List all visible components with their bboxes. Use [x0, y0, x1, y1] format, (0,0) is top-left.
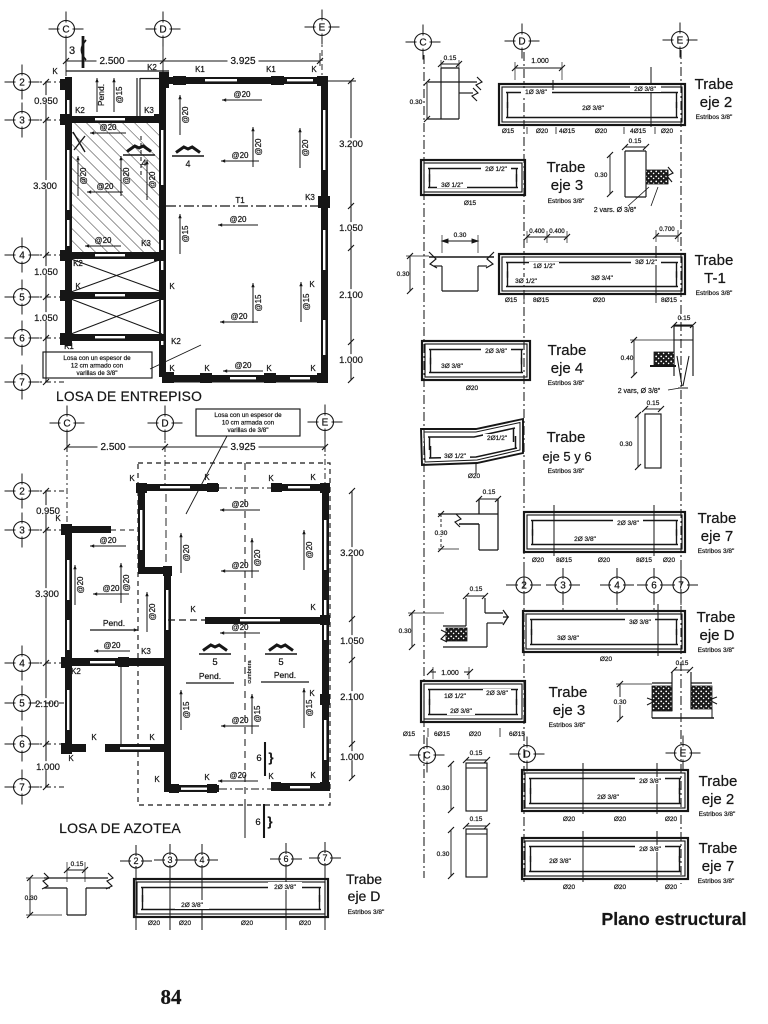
- section L eje 7: [478, 499, 480, 514]
- svg-text:T1: T1: [235, 196, 245, 205]
- svg-text:D: D: [159, 25, 166, 36]
- svg-text:eje 5 y 6: eje 5 y 6: [542, 449, 591, 464]
- svg-text:5: 5: [19, 699, 25, 710]
- bar label 2-1/2 eje 3: [481, 165, 511, 172]
- dim 0.700 above T-1: [656, 235, 678, 237]
- svg-text:0.30: 0.30: [437, 851, 450, 858]
- svg-text:Ø20: Ø20: [148, 920, 161, 927]
- column K3 row3 D axis: [154, 114, 166, 125]
- svg-text:K3: K3: [305, 193, 315, 202]
- dim 0.15 section eje 5y6: [645, 408, 661, 410]
- svg-text:E: E: [680, 749, 687, 760]
- note box losa 12 cm: [43, 352, 152, 378]
- row bubble 4 azotea: [5, 646, 40, 681]
- svg-text:3: 3: [167, 855, 172, 865]
- beam Trabe eje D right: [523, 611, 685, 652]
- svg-text:@20: @20: [94, 236, 112, 245]
- svg-text:@20: @20: [305, 541, 314, 559]
- wall row 3 entrepiso: [65, 116, 166, 123]
- svg-text:2 vars. Ø 3/8": 2 vars. Ø 3/8": [594, 207, 637, 214]
- speckled slab eje 3 section: [646, 170, 668, 184]
- svg-text:@20: @20: [231, 623, 249, 632]
- row bubble 2 entrepiso: [5, 65, 40, 100]
- beam Trabe eje 3 second: [421, 681, 525, 722]
- svg-text:Ø20: Ø20: [593, 297, 606, 304]
- column K top-left wing azotea: [61, 524, 72, 535]
- ridge line cumbrera dashed: [244, 463, 246, 805]
- row bubble 5 entrepiso: [5, 280, 40, 315]
- svg-text:@20: @20: [231, 500, 249, 509]
- svg-text:3.200: 3.200: [339, 139, 363, 150]
- detail bubble 6: [270, 843, 302, 875]
- dim 1.000 above eje 3 second: [430, 671, 470, 673]
- svg-text:T-1: T-1: [704, 270, 726, 287]
- svg-text:3: 3: [19, 526, 25, 537]
- grid bubble E top of entrepiso plan: [305, 10, 340, 45]
- svg-text:Ø20: Ø20: [241, 920, 254, 927]
- svg-text:}: }: [267, 814, 272, 829]
- svg-text:C: C: [62, 25, 69, 36]
- svg-text:K: K: [268, 474, 274, 483]
- wall row 4 azotea: [65, 658, 171, 666]
- top wall big part azotea west segment: [138, 484, 219, 491]
- svg-text:2Ø 3/8": 2Ø 3/8": [450, 708, 473, 715]
- dim 0.15 section eje 2: [441, 63, 459, 65]
- svg-text:2Ø 3/8": 2Ø 3/8": [181, 902, 204, 909]
- section column eje 5y6: [645, 414, 661, 468]
- svg-text:K1: K1: [64, 342, 74, 351]
- svg-text:Estribos 3/8": Estribos 3/8": [548, 468, 585, 475]
- bar label 3-1/2 eje 3: [437, 181, 467, 188]
- dim 1.000 above eje 2 beam: [515, 67, 562, 69]
- stirrup change lines eje 2 bottom: [582, 763, 584, 814]
- svg-text:6: 6: [255, 817, 260, 828]
- X brace room rows 4-5: [71, 259, 162, 292]
- svg-text:@15: @15: [305, 699, 314, 717]
- svg-text:3Ø 3/8": 3Ø 3/8": [441, 363, 464, 370]
- svg-text:3Ø 1/2": 3Ø 1/2": [441, 182, 464, 189]
- svg-text:6: 6: [19, 334, 25, 345]
- svg-text:@20: @20: [181, 106, 190, 124]
- column K top wall azotea c: [271, 483, 282, 492]
- section mark 3 below C axis: [82, 36, 85, 68]
- bar label 2-1/2 eje 5y6: [483, 434, 511, 441]
- svg-text:eje 2: eje 2: [702, 791, 735, 808]
- svg-text:5: 5: [19, 293, 25, 304]
- svg-text:Ø20: Ø20: [665, 816, 678, 823]
- dim 0.15 eje 2 bottom section: [466, 759, 487, 761]
- svg-text:K: K: [268, 772, 274, 781]
- svg-text:E: E: [322, 418, 329, 429]
- right wall entrepiso: [321, 77, 328, 382]
- svg-text:7: 7: [19, 783, 25, 794]
- svg-text:Ø20: Ø20: [598, 557, 611, 564]
- detail bubble 2: [120, 845, 152, 877]
- svg-text:0.400: 0.400: [529, 228, 545, 235]
- section slab edge eje 4: [673, 326, 675, 376]
- svg-text:C: C: [419, 38, 426, 49]
- dim 0.30 eje 3 second section: [619, 684, 621, 719]
- svg-text:3: 3: [19, 116, 25, 127]
- svg-text:0.30: 0.30: [25, 895, 38, 902]
- bar label 2-3/8 eje 7 top: [613, 519, 643, 526]
- svg-text:K: K: [55, 514, 61, 523]
- svg-text:3Ø 3/4": 3Ø 3/4": [591, 275, 614, 282]
- interior wall D axis entrepiso: [159, 77, 166, 377]
- column K bottom wall azotea b: [207, 784, 217, 793]
- svg-text:1Ø 1/2": 1Ø 1/2": [533, 263, 556, 270]
- dim 0.30 above T section: [442, 240, 478, 242]
- detail bubble 4: [186, 844, 218, 876]
- dim 0.30 eje 7 bottom section: [450, 830, 452, 876]
- svg-text:eje 4: eje 4: [551, 360, 584, 377]
- svg-text:6: 6: [19, 740, 25, 751]
- stirrup change line T-1: [655, 246, 657, 296]
- svg-text:0.40: 0.40: [621, 355, 634, 362]
- svg-text:Estribos 3/8": Estribos 3/8": [696, 114, 733, 121]
- svg-text:Ø20: Ø20: [600, 656, 613, 663]
- dim 0.15 section eje 4: [674, 324, 693, 326]
- svg-text:@20: @20: [301, 139, 310, 157]
- svg-text:0.30: 0.30: [437, 785, 450, 792]
- svg-text:4: 4: [19, 659, 25, 670]
- speckled slab eje D section: [446, 628, 467, 641]
- row bubble 3 azotea: [5, 513, 40, 548]
- right dim chain azotea: [351, 491, 353, 778]
- svg-text:0.30: 0.30: [454, 232, 467, 239]
- svg-text:3.925: 3.925: [230, 442, 255, 453]
- row bubble 3 entrepiso: [5, 103, 40, 138]
- column K right wall azotea: [320, 694, 330, 705]
- column K bottom right corner: [317, 373, 328, 383]
- svg-text:84: 84: [161, 985, 183, 1009]
- column K top-left corner: [60, 79, 71, 90]
- grid bubble C right top: [406, 25, 441, 60]
- svg-text:7: 7: [678, 581, 684, 592]
- svg-text:8Ø15: 8Ø15: [556, 557, 572, 564]
- svg-text:0.15: 0.15: [676, 660, 689, 667]
- svg-text:}: }: [268, 750, 273, 765]
- section L corner eje 2: [440, 68, 442, 119]
- svg-text:2.500: 2.500: [100, 442, 125, 453]
- svg-text:LOSA DE AZOTEA: LOSA DE AZOTEA: [59, 820, 181, 836]
- svg-text:2: 2: [521, 581, 527, 592]
- svg-text:C: C: [63, 419, 70, 430]
- svg-text:@20: @20: [122, 167, 131, 185]
- grid bubble D right bottom: [510, 737, 545, 772]
- svg-text:@20: @20: [148, 603, 157, 621]
- svg-text:eje 7: eje 7: [702, 858, 735, 875]
- svg-text:@20: @20: [234, 361, 252, 370]
- svg-text:K3: K3: [141, 239, 151, 248]
- axis lines through detail beam: [135, 868, 137, 930]
- svg-text:0.30: 0.30: [614, 699, 627, 706]
- bottom-right wall azotea: [273, 783, 330, 791]
- wall top of left wing azotea: [65, 526, 111, 533]
- svg-text:3: 3: [560, 581, 566, 592]
- bar label 2-3/8 top right detail: [268, 882, 302, 890]
- interior axis dash D azotea room: [165, 494, 167, 574]
- beam T1 centerline: [166, 205, 321, 207]
- svg-text:5: 5: [212, 657, 217, 668]
- svg-text:K: K: [309, 689, 315, 698]
- svg-text:K: K: [68, 754, 74, 763]
- svg-text:Estribos 3/8": Estribos 3/8": [548, 380, 585, 387]
- svg-text:4: 4: [199, 855, 204, 865]
- axis stubs into beam eje D: [523, 594, 525, 611]
- svg-text:3Ø 3/8": 3Ø 3/8": [557, 635, 580, 642]
- detail bubble 7: [309, 842, 341, 874]
- svg-text:K: K: [310, 603, 316, 612]
- svg-text:Losa con un espesor de: Losa con un espesor de: [63, 355, 131, 362]
- bar label 2-3/8 eje 2 top right: [630, 85, 661, 92]
- svg-text:K: K: [190, 605, 196, 614]
- wall top of big room entrepiso: [163, 77, 328, 84]
- svg-text:@20: @20: [79, 167, 88, 185]
- dim 0.30 bottom-left sketch: [29, 878, 31, 915]
- svg-text:0.15: 0.15: [647, 400, 660, 407]
- leader from note box azotea: [186, 436, 227, 514]
- column K bottom wall azotea c: [271, 782, 281, 791]
- svg-text:K2: K2: [71, 667, 81, 676]
- column K bottom wall: [200, 373, 212, 383]
- svg-text:Pend.: Pend.: [199, 671, 221, 681]
- svg-text:Pend.: Pend.: [103, 618, 125, 628]
- section column eje 7 bottom: [466, 829, 487, 877]
- svg-text:K: K: [169, 364, 175, 373]
- column K1 row6: [60, 333, 72, 345]
- dimension 2.500 top entrepiso: [66, 60, 163, 62]
- svg-text:Ø20: Ø20: [614, 816, 627, 823]
- svg-text:@20: @20: [76, 576, 85, 594]
- svg-text:@20: @20: [96, 182, 114, 191]
- grid bubble C top of entrepiso plan: [49, 12, 84, 47]
- svg-text:2.100: 2.100: [340, 692, 364, 703]
- bar label 2-3/8 eje 3 second bottom: [447, 707, 475, 715]
- svg-text:@15: @15: [302, 293, 311, 311]
- bar label 2-3/8 bottom left detail: [175, 900, 209, 909]
- svg-text:@20: @20: [230, 312, 248, 321]
- svg-text:LOSA DE ENTREPISO: LOSA DE ENTREPISO: [56, 389, 202, 404]
- svg-text:1.050: 1.050: [34, 313, 58, 324]
- dim 0.30 section eje 3: [609, 155, 611, 194]
- svg-text:K: K: [310, 771, 316, 780]
- svg-text:Plano estructural: Plano estructural: [601, 909, 746, 929]
- bar label 3-3/8 eje D bottom: [553, 634, 583, 642]
- section column eje 2 bottom: [466, 763, 487, 811]
- svg-text:K: K: [149, 733, 155, 742]
- svg-text:@15: @15: [181, 225, 190, 243]
- vertical wall rows 6-7 azotea: [164, 744, 171, 792]
- left wall azotea: [65, 526, 72, 753]
- beam Trabe T-1: [499, 254, 685, 294]
- dashed wall continuation bottom azotea: [219, 788, 273, 790]
- dim 0.15 section eje 7: [479, 498, 498, 500]
- svg-text:Trabe: Trabe: [698, 510, 737, 527]
- beam Trabe eje 2 bottom: [522, 770, 688, 811]
- grid bubble E azotea: [308, 405, 343, 440]
- grid bubble C right bottom: [410, 738, 445, 773]
- column K3 right wall at T1: [318, 196, 330, 208]
- svg-text:2Ø 3/8": 2Ø 3/8": [597, 794, 620, 801]
- svg-text:K2: K2: [147, 63, 157, 72]
- wall row 6 entrepiso: [65, 334, 166, 341]
- bar label 1-3/8 eje 2: [521, 88, 552, 95]
- svg-text:K: K: [91, 733, 97, 742]
- bar label 2-3/8 eje 7 bottom top: [635, 845, 665, 852]
- column K2 bottom left of big room: [162, 372, 174, 383]
- svg-text:Trabe: Trabe: [699, 773, 738, 790]
- bar label 2-3/8 eje 3 second top: [483, 689, 511, 696]
- svg-text:Ø20: Ø20: [665, 884, 678, 891]
- svg-text:0.15: 0.15: [470, 750, 483, 757]
- section mark 4 hat right: [176, 147, 200, 153]
- svg-text:2Ø 3/8": 2Ø 3/8": [617, 520, 640, 527]
- axis stub D entrepiso: [162, 38, 164, 74]
- svg-text:K: K: [310, 364, 316, 373]
- axis stub D azotea: [164, 432, 166, 486]
- section mark 5 hat left: [203, 645, 227, 651]
- svg-text:K: K: [75, 282, 81, 291]
- left dimension chain azotea: [45, 491, 47, 787]
- dim 0.15 eje 3 second section: [674, 669, 690, 671]
- stirrup change lines eje 7 top: [553, 505, 555, 556]
- svg-text:0.15: 0.15: [483, 489, 496, 496]
- svg-text:E: E: [677, 36, 684, 47]
- bar label 3-3/8 eje D top: [625, 618, 655, 625]
- svg-text:Ø20: Ø20: [663, 557, 676, 564]
- column K3 row4: [154, 250, 166, 261]
- section mark 4 hat left: [127, 146, 151, 152]
- svg-text:0.15: 0.15: [444, 55, 457, 62]
- svg-text:Ø20: Ø20: [661, 128, 674, 135]
- svg-text:K: K: [204, 364, 210, 373]
- svg-text:3Ø 1/2": 3Ø 1/2": [444, 453, 467, 460]
- svg-text:Trabe: Trabe: [548, 342, 587, 359]
- svg-text:5: 5: [278, 657, 283, 668]
- grid bubble D top of entrepiso plan: [146, 12, 181, 47]
- column K bottom wall b: [264, 373, 276, 383]
- right wall azotea: [322, 484, 329, 791]
- dim 0.15 bottom-left sketch: [67, 869, 85, 871]
- svg-text:3: 3: [69, 45, 75, 57]
- beam Trabe eje 7 bottom: [522, 838, 688, 879]
- svg-text:Ø20: Ø20: [179, 920, 192, 927]
- beam Trabe eje 5 y 6 skewed: [421, 419, 523, 465]
- svg-text:@20: @20: [229, 771, 247, 780]
- bar label 2-3/8 eje 4: [481, 347, 511, 354]
- dim 0.15 eje 7 bottom section: [466, 825, 487, 827]
- svg-text:Trabe: Trabe: [695, 252, 734, 269]
- svg-text:@20: @20: [103, 641, 121, 650]
- grid bubble D right top: [505, 24, 540, 59]
- wall row 4 entrepiso: [65, 252, 166, 259]
- svg-text:@20: @20: [102, 584, 120, 593]
- svg-text:2Ø 3/8": 2Ø 3/8": [549, 858, 572, 865]
- svg-text:0.15: 0.15: [629, 138, 642, 145]
- svg-text:6: 6: [256, 753, 261, 764]
- svg-text:K1: K1: [266, 65, 276, 74]
- svg-text:Ø20: Ø20: [466, 385, 479, 392]
- column K top wall azotea a: [136, 483, 147, 493]
- row bubble 7 entrepiso: [5, 365, 40, 400]
- axis stubs azotea rows: [31, 490, 64, 492]
- row bubble 5 azotea: [5, 686, 40, 721]
- svg-text:K: K: [310, 473, 316, 482]
- svg-text:1.000: 1.000: [36, 762, 60, 773]
- svg-text:2Ø 3/8": 2Ø 3/8": [486, 690, 509, 697]
- svg-text:eje D: eje D: [699, 627, 734, 644]
- section sketch column and slab bottom-left: [44, 877, 108, 879]
- svg-text:Estribos 3/8": Estribos 3/8": [696, 290, 733, 297]
- svg-text:Estribos 3/8": Estribos 3/8": [698, 878, 735, 885]
- axis line C right panel: [423, 55, 425, 878]
- svg-text:@20: @20: [122, 574, 131, 592]
- axis line D right panel: [523, 52, 525, 882]
- svg-text:8Ø15: 8Ø15: [661, 297, 677, 304]
- row bubble 6 azotea: [5, 727, 40, 762]
- column K3 row4 azotea: [118, 657, 129, 667]
- svg-text:0.700: 0.700: [659, 226, 675, 233]
- column K2 top D axis: [159, 72, 169, 88]
- roof edge line top of left wing entrepiso: [66, 70, 169, 72]
- top wall big part azotea east segment: [273, 484, 330, 491]
- svg-text:2Ø 3/8": 2Ø 3/8": [274, 884, 297, 891]
- left dimension chain entrepiso: [45, 82, 47, 382]
- svg-text:eje 3: eje 3: [553, 702, 586, 719]
- dimension 3.925 azotea: [165, 446, 325, 448]
- svg-text:eje 2: eje 2: [700, 94, 733, 111]
- svg-text:Trabe: Trabe: [697, 609, 736, 626]
- svg-text:K2: K2: [75, 106, 85, 115]
- svg-text:1.000: 1.000: [441, 670, 459, 677]
- svg-text:Ø20: Ø20: [532, 557, 545, 564]
- svg-text:1Ø 3/8": 1Ø 3/8": [525, 89, 548, 96]
- detail bubble 3: [154, 844, 186, 876]
- svg-text:K1: K1: [195, 65, 205, 74]
- beam Trabe eje 3 first: [421, 160, 525, 195]
- dimension 2.500 azotea: [67, 446, 165, 448]
- svg-text:D: D: [518, 37, 525, 48]
- drain cross mark: [73, 132, 85, 152]
- svg-text:3.200: 3.200: [340, 548, 364, 559]
- axis stub C azotea: [66, 432, 68, 524]
- svg-text:0.15: 0.15: [470, 816, 483, 823]
- row bubble 2 azotea: [5, 474, 40, 509]
- svg-text:Ø15: Ø15: [505, 297, 518, 304]
- svg-text:2Ø1/2": 2Ø1/2": [487, 435, 508, 442]
- section slab edge eje 3: [624, 151, 626, 197]
- beam Trabe eje 7 top: [524, 512, 685, 552]
- svg-text:K: K: [204, 473, 210, 482]
- svg-text:@15: @15: [254, 294, 263, 312]
- svg-text:@20: @20: [99, 536, 117, 545]
- row bubble 7 azotea: [5, 770, 40, 805]
- section mark 6 lower: [263, 804, 265, 838]
- svg-text:@20: @20: [231, 561, 249, 570]
- svg-text:Estribos 3/8": Estribos 3/8": [698, 548, 735, 555]
- detail bubble 2 right: [507, 568, 541, 602]
- bar label 1-1/2 eje 3 second: [441, 692, 469, 699]
- svg-text:@20: @20: [233, 90, 251, 99]
- svg-text:0.15: 0.15: [71, 861, 84, 868]
- svg-text:K2: K2: [171, 337, 181, 346]
- bar label 3-1/2 eje 5y6: [441, 452, 470, 459]
- svg-text:@20: @20: [254, 138, 263, 156]
- axis line E right panel: [680, 50, 682, 884]
- svg-text:K: K: [266, 364, 272, 373]
- svg-text:@20: @20: [231, 716, 249, 725]
